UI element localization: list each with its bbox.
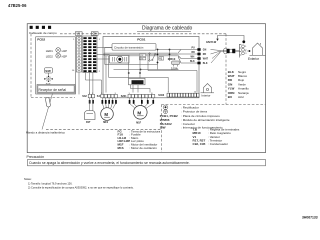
svg-text:M: M — [104, 112, 108, 117]
operation switch symbol — [45, 73, 53, 81]
lower wire vertical left — [105, 56, 107, 93]
svg-text:Interior: Interior — [202, 94, 211, 98]
svg-text:: Protector de tierra: : Protector de tierra — [181, 110, 207, 114]
converging wires to cable — [211, 50, 221, 64]
component legend right sub-block — [193, 128, 240, 146]
svg-text:IPM06: IPM06 — [132, 81, 140, 84]
junction dots — [128, 49, 171, 74]
field wiring dashed boundary right — [225, 34, 227, 105]
svg-text:BLK: BLK — [190, 61, 195, 63]
swing motor M1S — [101, 108, 114, 121]
nested wire L to S403 left — [109, 56, 169, 93]
svg-text:GN: GN — [203, 49, 207, 51]
svg-text:PCB1: PCB1 — [137, 38, 146, 42]
varistor V1 — [159, 57, 164, 60]
svg-text:Azul: Azul — [238, 95, 244, 99]
IPM feed wires — [128, 56, 130, 78]
PCB1 board box — [103, 37, 199, 98]
svg-text:1) Tamaño: longitud 76,9 anch: 1) Tamaño: longitud 76,9 anchura 126. — [28, 181, 73, 185]
junction verticals from circuito — [157, 50, 159, 70]
wire labels under S41 — [102, 100, 117, 104]
svg-text:U1: U1 — [77, 32, 81, 36]
PCB2 board box — [36, 37, 76, 94]
LED1 H1P lamp — [46, 48, 67, 53]
small diode symbols — [149, 53, 156, 61]
connector U1 label — [75, 32, 82, 36]
component legend right block — [160, 105, 230, 129]
power bus band — [104, 53, 179, 57]
connector CN label — [91, 32, 98, 36]
fan motor M1F — [134, 106, 148, 120]
svg-text:Cableado de campo: Cableado de campo — [29, 31, 57, 35]
exterior house icon — [250, 43, 266, 55]
svg-text:: Condensador: : Condensador — [208, 142, 228, 146]
svg-text:: Motor de oscilación: : Motor de oscilación — [129, 146, 157, 150]
cable clamp oval — [224, 48, 227, 54]
svg-text:PU: PU — [192, 48, 196, 50]
svg-text:WHT: WHT — [203, 58, 209, 60]
svg-text:WH: WH — [191, 57, 195, 59]
cable with ferrite core — [221, 50, 240, 52]
switch S/W box — [45, 68, 53, 73]
svg-text:C92: C92 — [140, 55, 143, 57]
svg-text:LED1: LED1 — [46, 49, 53, 53]
svg-text:2) Consulte la especificación: 2) Consulte la especificación de compra … — [28, 186, 134, 190]
notes block — [24, 177, 134, 190]
wire colour labels left of connector — [190, 48, 195, 64]
svg-text:R1T: R1T — [86, 121, 91, 124]
svg-text:2: 2 — [99, 71, 101, 73]
unit dashed boundary bottom — [46, 128, 162, 130]
legend rectifier symbol — [163, 105, 168, 110]
svg-text:Exterior: Exterior — [248, 57, 260, 61]
svg-text:H1P: H1P — [62, 49, 68, 53]
dashed boundary bottom-left — [31, 97, 75, 99]
svg-text:GN/YLW: GN/YLW — [206, 40, 217, 44]
fuse F1U — [172, 61, 180, 65]
svg-text:Precaución: Precaución — [27, 155, 45, 159]
svg-text:Diagrama de cableado: Diagrama de cableado — [142, 25, 193, 31]
svg-text:M: M — [137, 110, 141, 115]
connector 1402 pins — [197, 48, 200, 64]
IPM module — [129, 78, 146, 85]
fan motor wires — [130, 98, 154, 108]
svg-text:H2P: H2P — [62, 55, 68, 59]
rectifier — [110, 56, 130, 64]
svg-text:Cuando se apaga la alimentació: Cuando se apaga la alimentación y vuelve… — [29, 161, 190, 165]
wire labels under S201 — [129, 100, 154, 104]
capacitor C92 — [139, 54, 145, 57]
dashed boundary left — [30, 34, 32, 98]
svg-text:M1S: M1S — [118, 146, 124, 150]
svg-text:LED2: LED2 — [46, 55, 53, 59]
main diagram border — [27, 24, 265, 153]
ground wire GN/YLW — [218, 36, 245, 42]
dashed boundary to right border — [226, 104, 266, 106]
terminal earth screw — [242, 40, 245, 43]
wire labels under S32 — [89, 100, 94, 104]
LED2 H2P lamp — [46, 53, 67, 58]
svg-text:Mando a distancia inalámbrico: Mando a distancia inalámbrico — [26, 131, 65, 135]
svg-text:S/W: S/W — [45, 69, 51, 73]
signal receiver box — [37, 85, 75, 94]
svg-text:RD: RD — [192, 52, 196, 54]
svg-text:S403: S403 — [158, 94, 164, 97]
legend area dashed top — [162, 104, 227, 106]
svg-text:BU: BU — [228, 95, 232, 99]
svg-text:10: 10 — [72, 70, 75, 72]
svg-text:2: 2 — [245, 50, 247, 52]
svg-text:47B25-06: 47B25-06 — [8, 3, 27, 8]
svg-text:S32: S32 — [82, 95, 87, 98]
svg-text:1: 1 — [245, 46, 247, 48]
dashed link to exterior — [245, 50, 250, 52]
wire colour labels right of connector — [203, 49, 209, 65]
lower wire y68.5 — [114, 69, 179, 71]
svg-text:1: 1 — [99, 39, 101, 41]
wire colour legend — [228, 70, 249, 99]
svg-text:Circuito de transmisión: Circuito de transmisión — [114, 45, 144, 49]
title underline — [137, 31, 191, 33]
capacitor C95 — [139, 57, 145, 60]
wires PCB2 to bottom connectors — [79, 72, 102, 94]
svg-text:3: 3 — [245, 53, 247, 55]
svg-text:MR10: MR10 — [168, 57, 176, 61]
svg-text:3,15A: 3,15A — [171, 67, 178, 70]
interior boundary house — [201, 84, 215, 93]
nested wire L to S403 right — [148, 56, 197, 93]
svg-text:3H067133: 3H067133 — [302, 216, 318, 220]
legend area dashed left — [161, 105, 163, 153]
lower wire y64.5 — [105, 64, 158, 66]
terminal block — [240, 44, 242, 58]
thermistor R1T R2T body — [85, 111, 96, 120]
svg-text:M1S: M1S — [103, 121, 108, 124]
svg-text:PCB2: PCB2 — [37, 37, 45, 41]
field wiring dashed boundary top — [60, 33, 226, 35]
svg-text:S201: S201 — [121, 95, 127, 98]
IPM out wires — [131, 85, 151, 93]
swing motor wires — [102, 98, 116, 109]
svg-text:S/W: S/W — [160, 126, 166, 130]
transmission circuit box — [112, 44, 156, 51]
wires CN to PCB1 — [97, 48, 112, 60]
svg-text:Receptor de señal: Receptor de señal — [39, 88, 67, 92]
wireless remote body — [45, 97, 50, 107]
svg-text:C92, C95: C92, C95 — [193, 142, 206, 146]
connector CN pin block — [83, 36, 97, 73]
wires PCB1 right fan-out — [158, 50, 200, 64]
svg-text:Notas:: Notas: — [24, 177, 32, 181]
svg-text:CN: CN — [93, 32, 97, 36]
svg-text:BLK: BLK — [203, 63, 208, 65]
svg-text:M1F: M1F — [136, 121, 141, 124]
connector U1 pin column — [76, 37, 81, 73]
precaution box — [28, 160, 266, 166]
corner marker squares — [30, 26, 51, 29]
component legend left block — [118, 129, 161, 150]
svg-text:RD: RD — [203, 54, 207, 56]
svg-text:1: 1 — [73, 39, 75, 41]
svg-text:C95: C95 — [140, 59, 143, 61]
wire circuito left leg — [105, 48, 112, 65]
legend earth symbol — [163, 110, 167, 114]
wireless remote line — [42, 94, 53, 130]
thermistor wires — [90, 98, 93, 111]
